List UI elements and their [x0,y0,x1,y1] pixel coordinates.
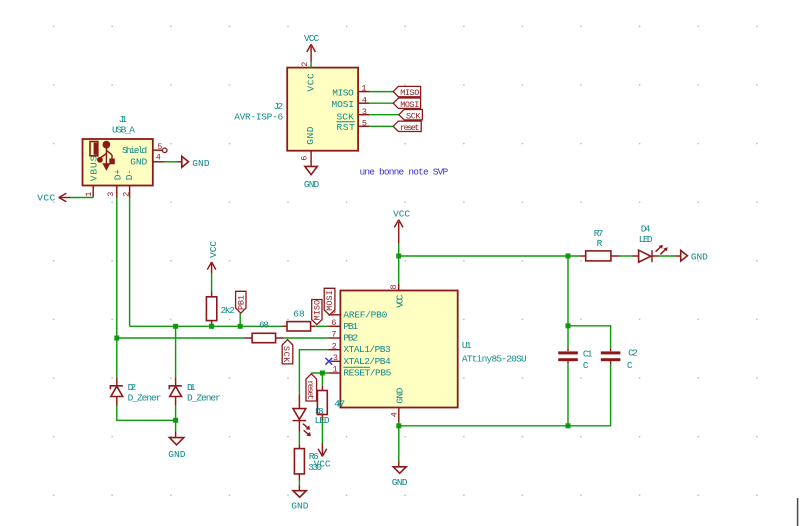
wire C1 vertical from bus3 [567,256,569,326]
global label SCK vertical [281,340,293,364]
svg-text:VCC: VCC [37,192,55,203]
svg-text:GND: GND [168,449,185,460]
svg-text:une bonne note SVP: une bonne note SVP [360,166,449,177]
svg-text:MOSI: MOSI [332,99,355,110]
wire D1 to GND [175,405,177,420]
svg-text:C: C [583,360,589,371]
junction D1 bottom [173,418,178,423]
svg-text:AVR-ISP-6: AVR-ISP-6 [234,111,283,122]
global label PB1 [236,291,247,313]
J2 pin 5 stub [358,118,370,128]
resistor R7 [580,228,620,261]
wire C1 to C2 top [568,326,611,349]
wire D4 to GND label [658,255,675,257]
svg-text:8: 8 [389,284,399,289]
svg-text:4: 4 [156,153,161,163]
svg-text:VBUS: VBUS [88,155,99,181]
junction C1 bottom bus [566,423,571,428]
power symbol GND below R6 [291,486,308,512]
svg-text:D4: D4 [641,223,651,234]
svg-text:PB1: PB1 [237,295,247,310]
U1 pin 8 VCC [389,284,405,308]
svg-text:1: 1 [361,84,366,94]
svg-text:2: 2 [300,62,310,67]
wire R68a to U1 pin6 [315,325,328,327]
svg-text:3: 3 [362,107,367,117]
svg-text:7: 7 [331,330,336,340]
junction bus3 C1 branch [566,254,571,259]
svg-text:C1: C1 [583,348,593,359]
svg-text:2: 2 [121,192,131,197]
svg-text:GND: GND [291,501,308,512]
svg-text:1: 1 [333,365,338,375]
svg-text:D-: D- [124,169,135,180]
wire 4k7 to VCC down [321,420,323,443]
svg-text:D_Zener: D_Zener [128,392,162,403]
wire D- vertical [129,198,131,327]
power symbol GND below U1 [392,462,408,488]
wire R7 to D4 [620,255,633,257]
U1 pin name RESET/PB5 [343,367,391,378]
zener diode D1 [169,378,221,405]
svg-text:VCC: VCC [395,294,406,308]
svg-text:68: 68 [259,319,269,330]
wire C1 bottom [567,364,569,426]
power symbol VCC pointing down [314,443,331,470]
resistor 4k7 [317,373,345,420]
svg-text:5: 5 [157,142,162,152]
svg-text:3: 3 [333,353,338,363]
wire R6 to GND [298,480,300,486]
LED D4 [633,223,668,262]
svg-text:RESET/PB5: RESET/PB5 [343,367,391,378]
junction D1 top on bus1 [173,324,178,329]
svg-text:3: 3 [106,192,116,197]
svg-text:MISO: MISO [332,88,354,99]
J2 pin 3 stub [358,107,370,117]
svg-text:reset: reset [400,123,420,133]
U1 pin 1 stub [328,365,340,375]
svg-text:J1: J1 [119,114,128,125]
resistor 2k2 [206,292,235,327]
wire C2 bottom [568,364,611,426]
svg-text:GND: GND [392,477,408,488]
svg-text:4: 4 [389,412,399,417]
junction 2k2 bus1 [209,324,214,329]
U1 pin 7 stub [328,330,340,340]
wire bus1 D- to R68a [130,325,283,327]
wire pin2 to LED D3 [299,350,328,395]
pin 3 D+ stub down [106,186,117,198]
J2 pin 2 VCC top [300,33,320,91]
global label reset vertical [305,374,317,401]
global label MISO vertical [312,300,323,325]
power symbol GND right of J1 [182,156,210,169]
resistor 68 lower [244,319,284,342]
pin 2 D- stub down [121,186,131,198]
svg-text:D_Zener: D_Zener [187,392,221,403]
svg-text:GND: GND [395,387,406,403]
power symbol VCC above U1 [393,209,410,244]
svg-text:VCC: VCC [393,209,410,220]
wire PB1 to bus1 [239,313,241,326]
J2 pin 6 GND bottom [299,126,319,190]
wire pin4 to MOSI label [370,102,394,104]
wire pin4 junction [398,422,400,462]
junction PB1 bus1 [238,324,243,329]
svg-text:ATtiny85-20SU: ATtiny85-20SU [462,354,527,365]
zener diode D2 [110,378,161,406]
svg-text:2: 2 [332,341,337,351]
U1 pin 3 stub [330,353,340,363]
global label MOSI vertical [324,288,335,315]
svg-text:reset: reset [305,380,315,400]
svg-text:MOSI: MOSI [325,290,335,311]
power symbol GND below D1 [168,438,185,460]
resistor R6 330 [294,444,322,479]
wire R68b to U1 pin7 [284,337,328,339]
connector J2 AVR-ISP-6 body [234,68,358,151]
svg-text:1: 1 [84,192,94,197]
pin 1 VBUS stub down [84,186,94,198]
svg-text:VCC: VCC [304,33,320,44]
capacitor C2 [601,347,638,370]
global label MISO [393,86,420,98]
U1 pin 4 GND [389,387,405,421]
svg-text:4k7: 4k7 [334,399,345,410]
svg-text:USB_A: USB_A [112,125,135,136]
USB plug icon [90,141,115,171]
global label SCK [399,110,423,122]
svg-text:LED: LED [639,234,653,245]
U1 pin 2 stub [328,341,340,351]
svg-text:C: C [627,360,633,371]
svg-text:GND: GND [305,126,316,145]
svg-text:6: 6 [331,318,336,328]
LED D3 [293,395,330,437]
svg-text:PB2: PB2 [343,333,358,344]
capacitor C1 [558,326,593,371]
wire U1 pin8 to VCC and bus3 [398,244,400,284]
svg-text:330: 330 [308,462,322,473]
svg-text:GND: GND [192,158,210,169]
svg-text:VCC: VCC [208,241,219,258]
U1 pin 5 stub [328,307,340,317]
junction reset 4k7 [320,371,325,376]
svg-text:GND: GND [691,251,708,262]
J2 pin 4 stub [358,95,370,105]
svg-text:GND: GND [130,157,147,168]
power symbol GND right [681,250,708,262]
wire pin4 to GND label [164,161,177,163]
svg-text:D1: D1 [187,382,196,393]
wire pin3 to SCK label [370,114,399,116]
junction VCC bus3 [396,254,401,259]
power symbol VCC above 2k2 [207,241,219,273]
svg-text:U1: U1 [462,340,472,351]
junction D+ bus2 [114,336,119,341]
pin 5 Shield stub [153,142,167,153]
svg-text:4: 4 [362,95,367,105]
pin 4 GND stub [153,153,164,163]
svg-text:MOSI: MOSI [400,100,419,110]
svg-text:2k2: 2k2 [221,305,236,316]
power symbol VCC left [37,192,70,203]
svg-text:R6: R6 [309,451,319,462]
junction U1 pin4 [396,423,401,428]
wire D1 vertical [175,326,177,377]
connector J1 USB_A body [83,114,153,186]
svg-text:XTAL1/PB3: XTAL1/PB3 [343,344,391,355]
resistor 68 upper [283,309,316,331]
global label reset [393,121,421,133]
wire pin1 to VCC [70,197,93,199]
junction C1 top [566,323,571,328]
no-connect X on pin 3 [325,358,332,365]
global label MOSI [393,98,420,110]
wire D3 to R6 [298,432,300,445]
wire bus2 D+ to R68b [117,337,244,339]
wire bottom bus to U1 pin4 [399,425,568,427]
svg-text:D+: D+ [113,169,124,181]
svg-text:MISO: MISO [313,300,323,321]
svg-text:LED: LED [315,415,330,426]
wire D+ vertical [116,198,118,378]
wire D2 bottom to junction [117,406,176,420]
svg-text:Shield: Shield [122,145,147,156]
sheet frame edge [797,498,799,526]
svg-text:R: R [597,238,603,249]
svg-text:D2: D2 [128,382,137,393]
wire 2k2 to VCC [211,273,213,292]
wire reset to pin1 junction [311,372,328,374]
svg-text:RST: RST [337,122,356,133]
wire pin1 to MISO label [370,91,394,93]
U1 pin 6 stub [328,318,340,328]
svg-text:GND: GND [304,179,320,190]
svg-text:AREF/PB0: AREF/PB0 [343,310,387,321]
svg-text:6: 6 [299,156,309,161]
svg-text:XTAL2/PB4: XTAL2/PB4 [343,356,391,367]
svg-text:C2: C2 [628,347,638,358]
J2 pin name RST with overline [337,122,356,133]
svg-text:PB1: PB1 [343,321,358,332]
svg-text:5: 5 [362,118,367,128]
svg-text:SCK: SCK [406,111,421,121]
svg-text:MISO: MISO [400,88,419,98]
svg-text:VCC: VCC [305,73,316,92]
wire bus3 top horizontal [399,255,580,257]
IC U1 ATtiny85 body [340,291,527,408]
svg-text:68: 68 [293,309,305,320]
wire pin5 to reset label [370,125,394,127]
svg-text:SCK: SCK [281,346,291,363]
J2 pin 1 stub [358,84,370,94]
